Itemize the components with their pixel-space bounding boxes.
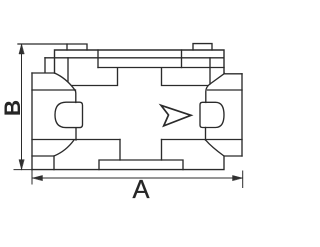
body top cover bar: [45, 50, 224, 74]
left sump wall: [53, 156, 55, 170]
left shoulder arc with stem: [55, 73, 76, 103]
label A (horizontal dimension letter): [123, 180, 159, 200]
bore top line right: [208, 89, 243, 91]
cover bolt line right x=181.5: [181, 50, 183, 68]
right shoulder chamfer with stem: [206, 74, 225, 103]
union nut left (D shape): [55, 102, 83, 127]
extension line B bottom: [14, 169, 32, 171]
bore bottom line left: [32, 139, 120, 141]
dimension B arrow bottom: [19, 160, 24, 170]
extension line A right: [242, 171, 244, 188]
cover underside line: [98, 67, 224, 69]
cavity vertical left x=120: [119, 140, 121, 161]
union nut left stems: [75, 128, 77, 140]
left sump outline: [32, 140, 74, 156]
cover bolt line left x=98: [97, 50, 99, 68]
hidden boss edge left x=68: [67, 58, 69, 81]
dimension A arrow right: [233, 175, 243, 180]
right socket face: [241, 74, 243, 156]
right sump chamfer: [206, 140, 243, 156]
bore top line left: [32, 89, 76, 91]
bore bottom line right: [162, 139, 243, 141]
dimension B arrow top: [19, 44, 24, 54]
left socket face: [31, 73, 33, 170]
hidden boss edge right x=210: [209, 58, 211, 84]
right socket top: [225, 73, 243, 75]
bottom pad: [99, 160, 183, 170]
plug left (top boss): [67, 44, 87, 50]
extension line B top: [18, 43, 67, 45]
plug right (top boss): [193, 44, 212, 50]
label B (vertical dimension letter): [4, 90, 22, 126]
dimension line A: [33, 177, 243, 179]
dimension line B: [21, 44, 23, 170]
bonnet neck: [72, 68, 208, 86]
dimension A arrow left: [33, 175, 43, 180]
cavity vertical right x=161.5: [161, 140, 163, 161]
left step block: [32, 58, 55, 73]
union nut right (D shape): [200, 102, 224, 127]
body bottom: [32, 156, 224, 170]
extension line A left: [31, 170, 33, 184]
union nut right stems: [205, 128, 207, 141]
flow direction arrow: [161, 105, 191, 126]
